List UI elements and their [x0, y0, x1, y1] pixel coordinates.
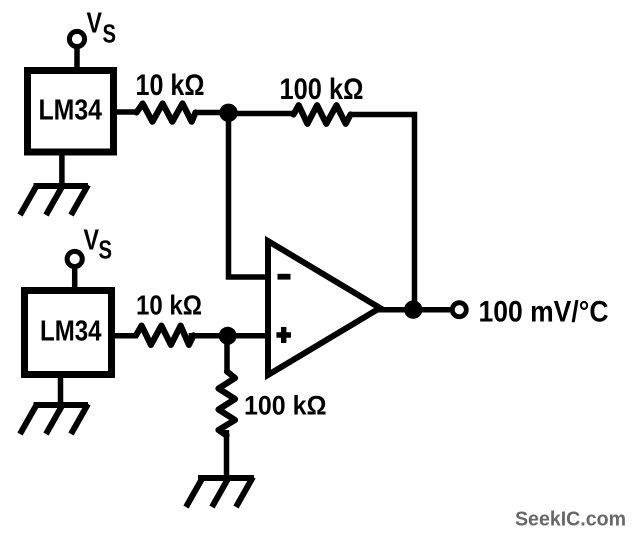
label VS (bottom)	[84, 225, 113, 265]
svg-text:V: V	[87, 8, 103, 40]
ground (top LM34)	[20, 185, 88, 215]
power terminal VS (top sensor)	[69, 31, 84, 46]
resistor R2 100 kOhm (feedback)	[294, 105, 351, 124]
plus sign (non-inverting input)	[276, 327, 291, 343]
svg-text:S: S	[103, 19, 117, 49]
sensor U1 LM34 (top)	[28, 71, 114, 153]
svg-text:10 kΩ: 10 kΩ	[136, 290, 202, 321]
svg-text:100 kΩ: 100 kΩ	[244, 391, 327, 421]
op-amp U3	[268, 241, 380, 375]
resistor R3 10 kOhm	[136, 326, 194, 345]
wire node A down to op-amp inverting input	[229, 113, 269, 277]
wire R4 to ground	[224, 430, 230, 478]
node A (junction dot)	[219, 104, 237, 122]
wire bottom LM34 to ground	[58, 376, 64, 405]
wire node A to R2	[229, 111, 296, 117]
node B (junction dot)	[219, 327, 237, 345]
svg-text:SeekIC.com: SeekIC.com	[515, 509, 626, 531]
ground (R4)	[186, 477, 254, 507]
wire top LM34 to R1	[116, 109, 138, 115]
svg-text:10 kΩ: 10 kΩ	[136, 69, 205, 102]
power terminal VS (bottom sensor)	[67, 251, 82, 266]
wire op-amp output to terminal	[378, 307, 452, 313]
wire VS to bottom LM34	[72, 266, 78, 290]
resistor R4 100 kOhm	[219, 372, 236, 436]
wire node B down to R4	[224, 336, 230, 373]
wire top LM34 to ground	[59, 155, 65, 186]
output terminal	[452, 303, 466, 317]
wire R1 to node A	[195, 110, 230, 116]
svg-text:LM34: LM34	[40, 316, 102, 348]
wire bottom LM34 to R3	[113, 333, 138, 339]
svg-text:S: S	[99, 235, 113, 265]
ground (bottom LM34)	[20, 404, 88, 434]
svg-text:100 kΩ: 100 kΩ	[280, 73, 364, 106]
output node (junction dot)	[404, 300, 422, 318]
label VS (top)	[87, 8, 117, 49]
resistor R1 10 kOhm	[137, 104, 196, 122]
wire R2 to output node (feedback)	[351, 115, 415, 311]
svg-text:LM34: LM34	[39, 95, 103, 127]
wire VS to top LM34	[74, 46, 80, 70]
svg-text:V: V	[84, 225, 100, 257]
svg-text:100 mV/°C: 100 mV/°C	[479, 296, 609, 329]
wire node B to op-amp non-inverting input	[228, 333, 268, 339]
minus sign (inverting input)	[278, 274, 291, 280]
sensor U2 LM34 (bottom)	[25, 291, 112, 375]
wire R3 to node B	[189, 333, 229, 339]
